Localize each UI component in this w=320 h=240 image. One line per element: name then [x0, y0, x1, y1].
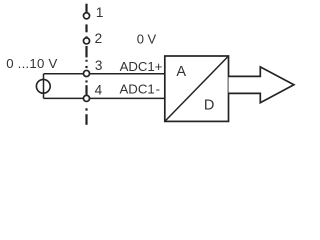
svg-text:ADC1-: ADC1-: [120, 82, 160, 97]
svg-text:0 ...10 V: 0 ...10 V: [6, 56, 57, 71]
svg-text:1: 1: [96, 5, 104, 20]
svg-text:0 V: 0 V: [137, 31, 157, 46]
svg-text:A: A: [176, 64, 186, 80]
svg-text:D: D: [204, 97, 214, 113]
svg-text:3: 3: [95, 58, 103, 73]
svg-text:2: 2: [95, 31, 103, 46]
svg-text:4: 4: [95, 83, 103, 98]
svg-text:ADC1+: ADC1+: [120, 59, 163, 74]
